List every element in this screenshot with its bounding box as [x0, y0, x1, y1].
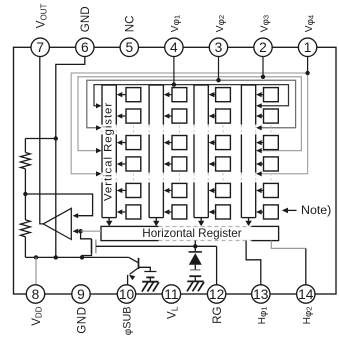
wire FD node to horizontal register (gray)	[81, 230, 101, 232]
photosensor cell r1c3 with readout arrow	[209, 88, 231, 102]
svg-text:GND: GND	[79, 6, 92, 32]
photosensor cell r1c4 with readout arrow	[256, 88, 278, 102]
transfer arrow register 2 to horizontal register	[153, 218, 159, 227]
svg-text:RG: RG	[211, 307, 224, 324]
svg-text:Vertical Register: Vertical Register	[102, 102, 114, 201]
label NC	[124, 15, 137, 32]
svg-text:NC: NC	[124, 15, 137, 32]
resistor R1	[21, 153, 31, 169]
column continuation dashes	[102, 125, 271, 181]
pin 14 terminal	[297, 285, 315, 303]
vertical register column 3	[194, 85, 208, 218]
photosensor cell r3c3 with readout arrow	[209, 136, 231, 150]
wire MOSFET source to rail	[82, 254, 92, 258]
svg-text:12: 12	[209, 287, 224, 302]
photosensor cell r2c1 with readout arrow	[117, 109, 141, 123]
svg-text:14: 14	[298, 287, 314, 302]
chassis ground (D1)	[187, 281, 204, 291]
pin 1 terminal	[298, 38, 316, 56]
photosensor cell r6c2 with readout arrow	[164, 205, 187, 219]
label Vertical Register	[102, 102, 114, 201]
svg-text:Horizontal Register: Horizontal Register	[142, 227, 241, 240]
op-amp U1 output amplifier	[43, 208, 71, 239]
MOSFET Q1 gate bar	[95, 240, 97, 254]
svg-text:7: 7	[36, 40, 44, 55]
pin 3 terminal	[209, 38, 227, 56]
svg-text:10: 10	[119, 287, 135, 302]
junction rail/MOSFET	[80, 255, 84, 259]
junction rail/pin8	[34, 255, 38, 259]
wire pin Vphi2 to bus	[218, 57, 220, 81]
label GND	[75, 307, 88, 334]
wire Q2 emitter to pin 10	[127, 275, 129, 285]
svg-text:1: 1	[304, 40, 312, 55]
wire RG line to pin 12	[216, 246, 218, 285]
svg-text:5: 5	[125, 40, 133, 55]
wire pin Vphi3 to bus	[262, 57, 264, 77]
wire FD node to MOSFET drain	[81, 231, 92, 239]
horizontal register	[101, 226, 279, 240]
svg-text:13: 13	[253, 287, 269, 302]
photosensor cell r2c2 with readout arrow	[164, 109, 187, 123]
pin 10 terminal	[117, 285, 135, 303]
transfer arrow register 1 to horizontal register	[106, 218, 112, 227]
vertical register column 1	[102, 85, 116, 218]
svg-text:Vφ1: Vφ1	[170, 15, 182, 32]
svg-text:8: 8	[32, 287, 40, 302]
svg-text:Hφ1: Hφ1	[257, 307, 269, 325]
svg-text:Hφ2: Hφ2	[302, 307, 314, 325]
label VL	[166, 306, 180, 319]
svg-text:Vφ2: Vφ2	[215, 15, 227, 32]
junction Vphi4	[305, 71, 309, 75]
wire pin 14 riser	[305, 248, 307, 285]
wire rail to Q2 collector	[129, 257, 139, 262]
pin 9 terminal	[72, 285, 90, 303]
pin 4 terminal	[165, 38, 183, 56]
pin 8 terminal	[26, 285, 44, 303]
photosensor cell r6c3 with readout arrow	[209, 205, 231, 219]
photosensor cell r6c1 with readout arrow	[117, 205, 141, 219]
label GND	[79, 6, 92, 32]
svg-text:φSUB: φSUB	[121, 307, 133, 336]
label Vphi1	[170, 15, 182, 32]
junction RG/diode	[193, 244, 197, 248]
photosensor cell r5c1 with readout arrow	[117, 183, 141, 197]
photosensor cell r2c4 with readout arrow	[256, 109, 278, 123]
bus Vphi3 (frame B, pin2)	[78, 77, 301, 153]
vertical register column 4	[241, 85, 255, 218]
photosensor cell r4c4 with readout arrow	[256, 157, 278, 171]
junction Vphi2	[216, 78, 220, 82]
svg-text:9: 9	[77, 287, 85, 302]
label Hphi2	[302, 307, 314, 325]
svg-text:3: 3	[215, 40, 223, 55]
capacitor C2 (diode to substrate)	[189, 270, 201, 282]
label Vphi3	[259, 15, 271, 32]
svg-text:Vφ4: Vφ4	[304, 15, 316, 32]
photosensor cell r4c3 with readout arrow	[209, 157, 231, 171]
svg-text:6: 6	[81, 40, 89, 55]
pin 5 terminal	[120, 38, 138, 56]
label VDD	[30, 306, 44, 326]
wire horizontal register to RG node	[194, 241, 196, 247]
diode D1	[189, 246, 202, 270]
pin 2 terminal	[254, 38, 272, 56]
wire pin Vphi1 to bus	[173, 57, 175, 85]
note pointer	[282, 203, 332, 217]
transfer arrow register 4 to horizontal register	[245, 218, 251, 227]
svg-text:GND: GND	[75, 307, 88, 334]
wire pin Vphi4 to bus	[307, 57, 309, 74]
transistor Q2 emitter	[129, 268, 139, 280]
wire GND pin6 down	[56, 57, 85, 258]
capacitor C1 (Q2 to substrate)	[139, 267, 157, 281]
photosensor cell r5c3 with readout arrow	[209, 183, 231, 197]
wire R1 to R2	[24, 169, 26, 220]
junction first-stage node	[23, 192, 27, 196]
photosensor cell r3c4 with readout arrow	[256, 136, 278, 150]
photosensor cell r5c2 with readout arrow	[164, 183, 187, 197]
pin 7 terminal	[31, 38, 49, 56]
wire rail to pin 8 (gray)	[35, 257, 37, 285]
pin 11 terminal	[162, 285, 180, 303]
svg-text:11: 11	[164, 287, 178, 302]
VDD rail	[25, 256, 128, 258]
photosensor cell r3c1 with readout arrow	[117, 136, 141, 150]
photosensor cell r5c4 with readout arrow	[256, 183, 278, 197]
label Vphi4	[304, 15, 316, 32]
wire to resistor R1	[24, 139, 26, 153]
MOSFET Q1 channel	[91, 239, 93, 254]
transistor Q2 bar	[138, 258, 140, 269]
wire amp input 2	[73, 229, 83, 234]
photosensor cell r2c3 with readout arrow	[209, 109, 231, 123]
label Vphi2	[215, 15, 227, 32]
chip outline	[14, 47, 337, 294]
photosensor cell r4c1 with readout arrow	[117, 157, 141, 171]
junction Vphi1	[172, 82, 176, 86]
label phiSUB	[121, 307, 133, 336]
wire RG gate line	[96, 245, 217, 247]
pin 6 terminal	[76, 38, 94, 56]
photosensor cell r6c4 with readout arrow	[256, 205, 278, 219]
svg-text:4: 4	[170, 40, 178, 55]
transfer arrow register 3 to horizontal register	[198, 218, 204, 227]
wire horizontal register to pin 14 (gray)	[271, 241, 306, 249]
photosensor cell r1c2 with readout arrow	[164, 88, 187, 102]
wire horizontal register to pin 13	[246, 241, 261, 285]
bus Vphi4 (frame A, pin1)	[71, 73, 307, 176]
wire amp input 1	[25, 194, 92, 218]
label VOUT	[35, 3, 49, 28]
svg-text:Note): Note)	[301, 203, 331, 217]
svg-text:Vφ3: Vφ3	[259, 15, 271, 32]
pin 12 terminal	[207, 285, 225, 303]
vertical register column 2	[149, 85, 163, 218]
label Hphi1	[257, 307, 269, 325]
bus Vphi2 (frame C, pin3)	[87, 80, 296, 130]
resistor R2	[21, 220, 31, 237]
wire R2 to VDD rail	[24, 237, 26, 258]
svg-text:2: 2	[259, 40, 267, 55]
photosensor cell r4c2 with readout arrow	[164, 157, 187, 171]
wire VOUT pin7 to amplifier output	[40, 57, 43, 224]
pin 13 terminal	[252, 285, 270, 303]
junction rail/GND line	[54, 255, 58, 259]
bus Vphi1 (frame D, pin4)	[94, 85, 289, 109]
photosensor cell r1c1 with readout arrow	[117, 88, 141, 102]
chassis ground (Q2)	[142, 282, 159, 292]
label RG	[211, 307, 224, 324]
junction res-top/GND	[54, 136, 58, 140]
wire resistor top to GND line	[25, 138, 55, 140]
photosensor cell r3c2 with readout arrow	[164, 136, 187, 150]
junction Vphi3	[261, 75, 265, 79]
